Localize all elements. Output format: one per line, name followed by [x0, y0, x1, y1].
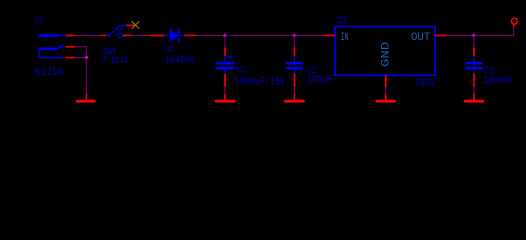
- diode D1: [164, 29, 184, 43]
- connector J1 pin 1: [66, 35, 75, 37]
- wire J1 pin1 to SW0 common: [75, 35, 101, 37]
- capacitor C1: [216, 56, 235, 74]
- regulator U1 pin name GND (rotated): [381, 41, 393, 67]
- capacitor C1 top pin: [224, 47, 226, 56]
- svg-text:P-B143: P-B143: [103, 56, 128, 67]
- capacitor C2 value label 100nF: [306, 75, 334, 87]
- svg-text:7805: 7805: [415, 78, 436, 90]
- regulator U1 pin IN: [325, 35, 336, 37]
- switch SW0 bottom throw contact: [118, 33, 122, 37]
- connector J1 value label K375A: [35, 67, 64, 79]
- capacitor C2 refdes label: [306, 66, 316, 77]
- switch SW0 common contact diamond: [106, 33, 111, 38]
- junction node A (C1 tap): [223, 33, 227, 37]
- switch SW0 value label P-B143: [103, 56, 128, 67]
- diode D1 value label 1N4007: [165, 55, 196, 67]
- switch SW0 bottom throw pin: [123, 35, 132, 37]
- svg-text:OUT: OUT: [411, 32, 431, 44]
- svg-text:1000uF/16V: 1000uF/16V: [234, 77, 285, 89]
- svg-text:100nF: 100nF: [483, 76, 513, 88]
- diode D1 refdes label: [165, 45, 175, 56]
- diode D1 anode pin: [150, 35, 164, 37]
- wire U1 OUT to node C: [447, 35, 475, 37]
- capacitor C1 plus sign: [228, 55, 233, 60]
- switch SW0 top throw contact: [118, 26, 122, 30]
- ground pin under U1: [385, 94, 387, 100]
- wire J1 pin3 to sleeve node: [75, 47, 87, 58]
- ground pin under C1: [224, 94, 226, 100]
- output terminal (open connection): [511, 18, 517, 24]
- wire U1 GND to ground: [385, 87, 387, 94]
- connector J1 tip contact (pin 1): [40, 34, 66, 37]
- wire C3 to ground: [473, 87, 475, 94]
- ground symbol under C3: [463, 100, 485, 103]
- connector J1 switch/spring contact (pin 3): [40, 45, 64, 49]
- svg-text:100nF: 100nF: [306, 75, 334, 87]
- capacitor C1 bottom pin: [224, 74, 226, 87]
- regulator U1 refdes label: [337, 15, 348, 27]
- ground symbol under U1: [375, 100, 397, 103]
- wire node B to U1 IN: [295, 35, 325, 37]
- capacitor C1 value label 1000uF/16V: [234, 77, 285, 89]
- wire C1 to ground: [224, 87, 226, 94]
- ground pin under C2: [294, 94, 296, 100]
- connector J1 pin 3: [66, 46, 75, 48]
- wire D1 to node A: [196, 35, 225, 37]
- svg-text:1N4007: 1N4007: [165, 55, 196, 67]
- regulator U1 value label 7805: [415, 78, 436, 90]
- capacitor C3 value label 100nF: [483, 76, 513, 88]
- wire J1 pin2 to sleeve node: [75, 57, 87, 59]
- capacitor C3 refdes label: [484, 66, 494, 78]
- capacitor C2 top pin: [294, 47, 296, 56]
- connector J1 sleeve contact (pin 2): [39, 48, 64, 58]
- junction at J1 sleeve node: [84, 56, 88, 60]
- svg-text:U1: U1: [337, 15, 348, 27]
- switch SW0 top throw lead: [122, 24, 127, 26]
- switch SW0 common pin: [100, 35, 106, 37]
- wire node C to C3: [473, 36, 475, 48]
- wire sleeve node down to ground: [86, 58, 88, 94]
- svg-text:J1: J1: [34, 17, 45, 28]
- ground symbol under C1: [214, 100, 236, 103]
- capacitor C1 refdes label: [236, 64, 246, 76]
- switch SW0 top throw pin: [126, 24, 135, 26]
- regulator U1 pin OUT: [435, 35, 447, 37]
- no-connect X marker: [132, 21, 140, 28]
- switch SW0 lever: [110, 28, 117, 34]
- capacitor C3 bottom pin: [473, 74, 475, 87]
- wire C2 to ground: [294, 87, 296, 94]
- regulator U1 pin GND: [385, 75, 387, 87]
- capacitor C3: [465, 56, 482, 74]
- capacitor C3 top pin: [473, 47, 475, 56]
- wire node C to output terminal: [474, 27, 514, 36]
- output terminal pin: [513, 24, 515, 27]
- switch SW0 refdes label: [103, 47, 116, 58]
- capacitor C2: [286, 56, 303, 74]
- ground symbol under C2: [284, 100, 306, 103]
- connector J1 pin 2: [66, 57, 75, 59]
- wire SW0 to D1: [132, 35, 151, 37]
- regulator U1 pin name IN: [340, 32, 348, 44]
- svg-text:K375A: K375A: [35, 67, 64, 79]
- wire node B to C2: [294, 36, 296, 48]
- svg-text:C1: C1: [236, 64, 246, 76]
- svg-text:IN: IN: [340, 32, 348, 44]
- junction node C (C3 tap): [472, 33, 476, 37]
- regulator U1 pin name OUT: [411, 32, 431, 44]
- ground symbol under J1: [75, 100, 97, 103]
- junction node B (C2 tap): [292, 33, 296, 37]
- connector J1 refdes label: [34, 17, 45, 28]
- capacitor C2 bottom pin: [294, 74, 296, 87]
- ground pin under C3: [473, 94, 475, 100]
- wire node A to node B: [225, 35, 295, 37]
- diode D1 cathode pin: [184, 35, 196, 37]
- wire node A to C1: [224, 36, 226, 48]
- regulator U1 body: [335, 27, 435, 76]
- svg-text:GND: GND: [381, 41, 393, 67]
- ground pin under J1: [86, 94, 88, 100]
